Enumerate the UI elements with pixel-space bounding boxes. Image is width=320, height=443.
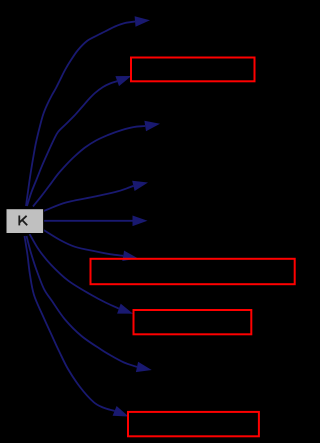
wire edge K->n7 [30, 234, 119, 309]
node K label (drawn glyph) [19, 216, 27, 226]
node K (grey box) [6, 209, 44, 234]
node box3 (red, truncated callee) [134, 310, 252, 334]
wire edge K->n3 [33, 126, 145, 207]
wire edge K->n6 [44, 230, 124, 256]
arrowhead edge K->n3 [144, 121, 160, 132]
wire edge K->n5 [44, 220, 133, 222]
arrowhead edge K->n2 [115, 76, 131, 86]
wire edge K->n4 [44, 186, 134, 211]
arrowhead edge K->n8 [136, 362, 152, 372]
node box2 (red, truncated callee) [91, 259, 295, 284]
wire edge K->n2 [27, 81, 117, 206]
wire edge K->n8 [27, 236, 138, 367]
arrowhead edge K->n5 [133, 216, 148, 227]
node box4 (red, truncated callee) [128, 412, 259, 436]
wire edge K->n9 [25, 236, 115, 411]
wire edge K->n1 [26, 22, 135, 207]
node box1 (red, truncated callee) [131, 58, 255, 82]
arrowhead edge K->n1 [135, 16, 150, 27]
arrowhead edge K->n4 [132, 181, 148, 191]
arrowhead edge K->n7 [117, 304, 133, 314]
arrowhead edge K->n6 [122, 251, 138, 261]
arrowhead edge K->n9 [113, 406, 129, 417]
